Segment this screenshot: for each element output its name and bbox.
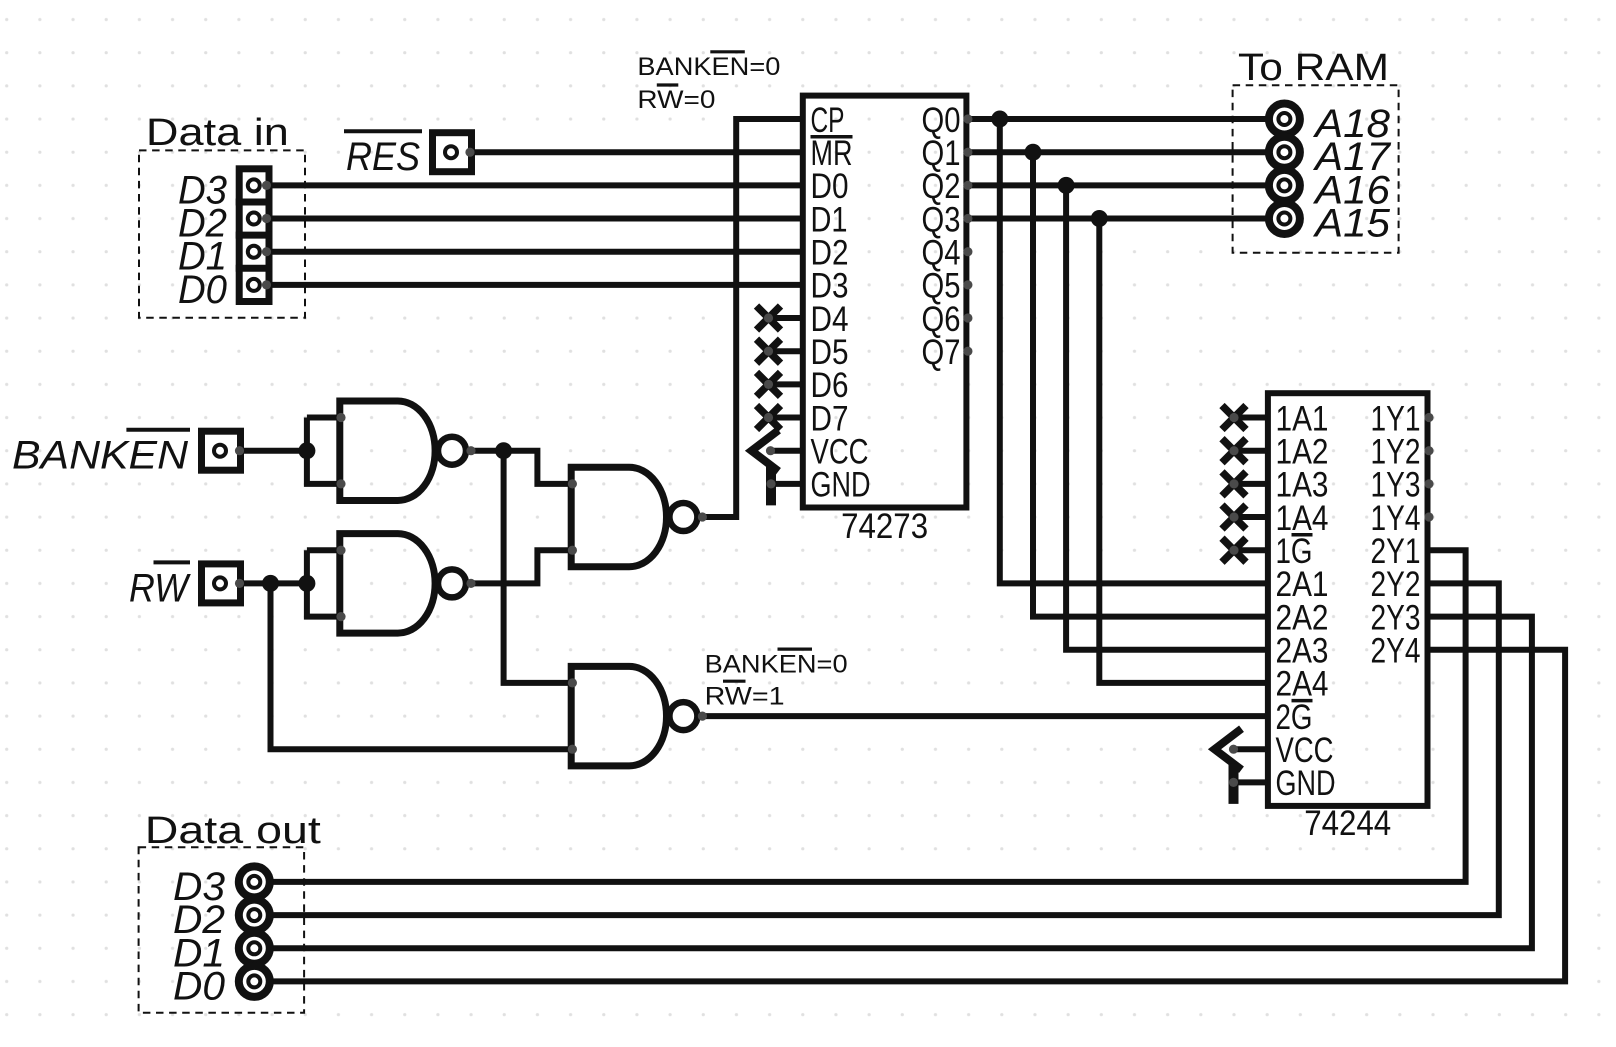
wire Q1 to A17 pad (966, 149, 1284, 155)
74244 1A2 no-connect X (1222, 439, 1246, 463)
svg-text:Data in: Data in (146, 112, 289, 154)
wire Q1 branch down to 2A2 (1033, 152, 1268, 616)
svg-text:A15: A15 (1313, 202, 1391, 246)
74244 1A3 no-connect X (1222, 472, 1246, 496)
wire U1 NAND input tie vertical (307, 418, 340, 484)
junction BANKEN tie (298, 442, 315, 459)
gate input pin dots (336, 413, 345, 422)
NAND gate U1 (BANKEN inverter) (340, 401, 435, 501)
wire U1 NAND input tie (307, 415, 340, 421)
junction U1 output split (495, 442, 512, 459)
74273 GND rail bar (766, 465, 776, 505)
wire 2Y4 to Data-out D0 (254, 650, 1565, 982)
svg-text:D0: D0 (173, 964, 225, 1008)
svg-text:Q7: Q7 (922, 333, 961, 372)
svg-text:GND: GND (811, 466, 871, 505)
wire Q0 to A18 pad (966, 116, 1284, 122)
74244 1A3 no-connect stub (1234, 481, 1268, 487)
74273 D6 no-connect stub (769, 381, 803, 387)
wire 2Y2 to Data-out D2 (254, 583, 1499, 915)
74244 pin end dots (1424, 413, 1433, 422)
annotation overline EN (read) (778, 647, 813, 650)
74244 1A2 no-connect stub (1234, 448, 1268, 454)
74244 1G no-connect X (1222, 538, 1246, 562)
label RES overline (344, 129, 422, 133)
RES pad (433, 133, 472, 172)
NAND gate U3 (571, 467, 666, 567)
To-RAM pad A15 (1269, 203, 1300, 234)
junction RW split (262, 575, 279, 592)
74273 pin end dots (963, 114, 972, 123)
wire U2 output to U3 input B (469, 550, 571, 583)
74244 VCC stub (1234, 746, 1268, 752)
74244 2G overline (1292, 699, 1313, 703)
svg-text:BANKEN=0: BANKEN=0 (705, 650, 848, 678)
wire Data-in D3 to 74273 D0 (253, 182, 802, 188)
pad wire dots (262, 181, 271, 190)
74244 GND stub (1234, 779, 1268, 785)
junction Q2 branch (1058, 177, 1075, 194)
BANKEN pad (202, 431, 241, 470)
Data-out pad D2 (239, 900, 270, 931)
wire 2Y1 to Data-out D3 (254, 550, 1465, 882)
RW pad (202, 564, 241, 603)
svg-text:2Y4: 2Y4 (1371, 632, 1421, 671)
junction Q0 branch (991, 111, 1008, 128)
label RW overline (154, 560, 191, 564)
wire RW pad to junctions (240, 580, 307, 586)
wire Q2 to A16 pad (966, 182, 1284, 188)
wire U2 NAND input tie (307, 547, 340, 553)
74273 MR overline (811, 135, 853, 139)
74273 D4 no-connect X (757, 306, 781, 330)
74244 1G overline (1292, 533, 1313, 537)
NAND gate U2 (RW inverter) (340, 534, 435, 634)
svg-text:To RAM: To RAM (1238, 47, 1389, 89)
junction RW tie (298, 575, 315, 592)
Data-out pad D3 (239, 866, 270, 897)
junction Q3 branch (1091, 210, 1108, 227)
wire Q0 branch down to 2A1 (1000, 119, 1268, 583)
svg-text:RES: RES (346, 135, 420, 179)
To-RAM dashed box (1233, 85, 1399, 252)
74273 D7 no-connect stub (769, 415, 803, 421)
wire Q2 branch down to 2A3 (1066, 185, 1268, 649)
svg-text:74244: 74244 (1304, 804, 1391, 843)
svg-text:RW=0: RW=0 (637, 86, 715, 114)
NAND gate U4 (571, 666, 666, 766)
svg-text:BANKEN=0: BANKEN=0 (637, 53, 780, 81)
74273 D7 no-connect X (757, 406, 781, 430)
svg-text:RW: RW (129, 566, 191, 610)
To-RAM pad A16 (1269, 170, 1300, 201)
Data-in pin circles (248, 179, 260, 191)
Data-out pad D1 (239, 933, 270, 964)
junction Q1 branch (1025, 144, 1042, 161)
wire U1 output branch to U4 input A (504, 451, 572, 683)
74244 1A4 no-connect stub (1234, 514, 1268, 520)
Data-out dashed box (139, 847, 305, 1013)
wire Data-in D2 to 74273 D1 (253, 216, 802, 222)
74273 VCC stub (771, 448, 803, 454)
wire U4 NAND output to 74244 2G (700, 713, 1268, 719)
Data-in connector dividers (236, 199, 273, 206)
Data-in dashed box (139, 150, 305, 317)
IC U6 74244 body (1268, 393, 1428, 806)
To-RAM pad A17 (1269, 137, 1300, 168)
wire Data-in D0 to 74273 D3 (253, 282, 802, 288)
wire U3 NAND output to 74273 CP (700, 119, 803, 517)
annotation overline W (657, 83, 679, 86)
wire Data-in D1 to 74273 D2 (253, 249, 802, 255)
wire BANKEN pad to junction (240, 448, 307, 454)
74273 D5 no-connect stub (769, 348, 803, 354)
annotation overline EN (710, 50, 745, 53)
gate output pin dots (466, 446, 475, 455)
svg-text:BANKEN: BANKEN (12, 434, 188, 478)
74273 D5 no-connect X (757, 339, 781, 363)
74244 1G no-connect stub (1234, 547, 1268, 553)
74273 GND stub (771, 481, 803, 487)
74244 1A4 no-connect X (1222, 505, 1246, 529)
74273 D6 no-connect X (757, 372, 781, 396)
svg-text:Data out: Data out (145, 810, 322, 852)
wire Q3 branch down to 2A4 (1099, 219, 1268, 683)
svg-text:D0: D0 (178, 268, 227, 312)
svg-text:GND: GND (1276, 764, 1336, 803)
IC U5 74273 body (803, 96, 967, 508)
wire RES to 74273 MR (471, 149, 803, 155)
wire Q3 to A15 pad (966, 216, 1284, 222)
svg-text:74273: 74273 (841, 507, 928, 546)
74244 VCC power arrow (1215, 729, 1242, 770)
74244 GND rail bar (1229, 764, 1239, 804)
label BANKEN overline (126, 428, 190, 432)
Data-in connector strip (239, 169, 269, 302)
wire RW branch to U4 input B (271, 583, 572, 749)
wire U2 NAND input tie vertical (307, 550, 340, 616)
74273 VCC power arrow (752, 430, 779, 471)
svg-text:RW=1: RW=1 (705, 682, 785, 710)
wire 2Y3 to Data-out D1 (254, 617, 1532, 949)
wire U1 output to U3 input A (469, 451, 571, 484)
74273 D4 no-connect stub (769, 315, 803, 321)
annotation overline W (read) (723, 680, 746, 683)
Data-out pad D0 (239, 966, 270, 997)
74244 1A1 no-connect X (1222, 406, 1246, 430)
To-RAM pad A18 (1269, 104, 1300, 135)
74244 1A1 no-connect stub (1234, 415, 1268, 421)
